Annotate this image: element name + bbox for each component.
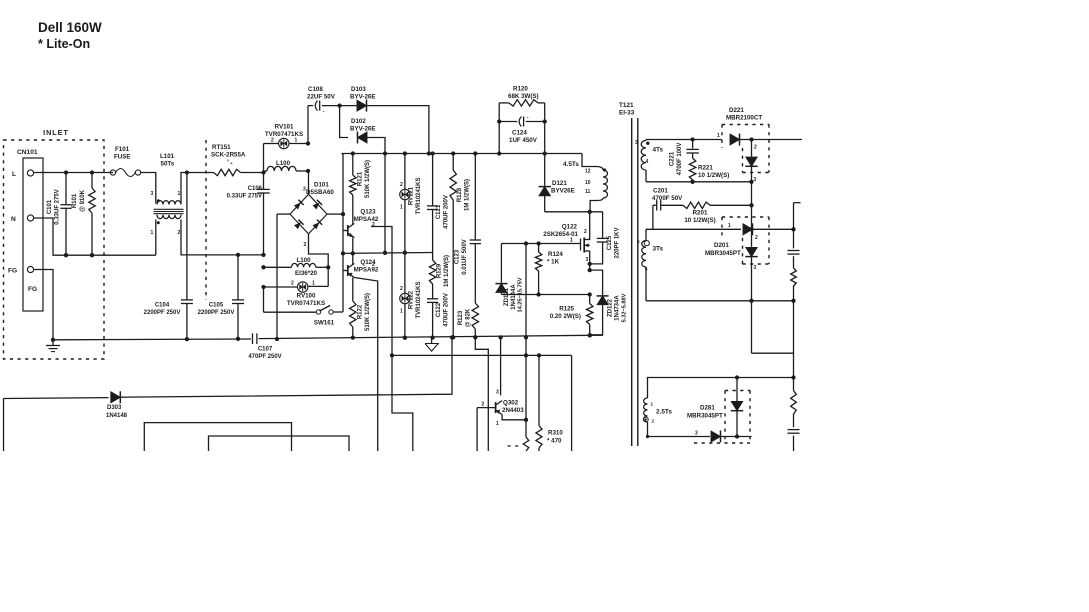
svg-text:TVR07471KS: TVR07471KS	[287, 300, 325, 307]
diode D281 lower	[711, 431, 721, 442]
svg-text:4.5Ts: 4.5Ts	[563, 161, 579, 168]
diode D303	[111, 392, 121, 403]
svg-text:1: 1	[400, 309, 403, 315]
junction R221 bottom	[690, 180, 694, 184]
svg-text:50Ts: 50Ts	[161, 161, 175, 168]
junction C125 return	[588, 262, 592, 266]
svg-text:1UF 450V: 1UF 450V	[509, 137, 538, 144]
wire W251 sub-bus	[343, 252, 433, 255]
svg-text:1M 1/2W(S): 1M 1/2W(S)	[465, 179, 471, 211]
svg-text:EI36*20: EI36*20	[295, 270, 318, 277]
svg-text:BYV-26E: BYV-26E	[350, 126, 375, 133]
junction bus R128 bottom	[451, 335, 455, 339]
wire col 475 jog	[475, 337, 488, 451]
junction bus R125	[588, 333, 592, 337]
svg-text:INLET: INLET	[43, 128, 69, 137]
junction W251 D102col	[383, 251, 387, 255]
svg-text:T121: T121	[619, 102, 634, 109]
svg-text:2: 2	[271, 138, 274, 144]
bridge diode upper-left	[294, 202, 301, 209]
svg-text:R221: R221	[698, 165, 713, 172]
junction R101 top	[90, 170, 94, 174]
svg-text:3: 3	[496, 390, 499, 396]
svg-text:C221: C221	[670, 151, 676, 166]
svg-text:BYV-26E: BYV-26E	[350, 94, 375, 101]
wire D201 out	[753, 228, 794, 230]
connector CN101 body	[23, 158, 43, 311]
svg-text:D201: D201	[714, 242, 729, 249]
capacitor C101	[65, 173, 67, 205]
svg-text:2: 2	[584, 229, 587, 235]
svg-text:D102: D102	[351, 118, 366, 125]
junction output 377	[791, 375, 795, 379]
junction bus RV121	[403, 151, 407, 155]
capacitor C106	[263, 173, 265, 190]
winding 3Ts	[645, 229, 647, 240]
wire Q122 gate	[501, 243, 580, 245]
svg-text:C108: C108	[308, 86, 323, 93]
ground chassis	[51, 338, 55, 342]
svg-text:L100: L100	[296, 257, 311, 264]
wire D201 in	[646, 228, 741, 230]
svg-text:TVR10241KS: TVR10241KS	[416, 177, 422, 214]
capacitor C122	[427, 298, 438, 300]
varistor RV100	[264, 286, 298, 288]
inductor L100 top	[264, 170, 268, 172]
svg-text:2: 2	[400, 286, 403, 292]
svg-text:2: 2	[372, 262, 375, 268]
svg-text:3Ts: 3Ts	[653, 246, 664, 253]
svg-text:R122: R122	[358, 304, 364, 319]
svg-text:L: L	[12, 171, 16, 178]
wire output column low	[793, 414, 795, 427]
svg-text:FG: FG	[28, 286, 37, 293]
svg-text:* 470: * 470	[547, 438, 562, 445]
junction bridge right	[341, 212, 345, 216]
dashed box D281	[725, 390, 750, 392]
junction bus R121	[351, 151, 355, 155]
junction D102 branch	[337, 103, 341, 107]
svg-text:1: 1	[651, 402, 654, 407]
junction bus R128	[451, 151, 455, 155]
bridge diode lower-left	[294, 222, 301, 229]
capacitor C201	[653, 204, 656, 206]
capacitor C108	[315, 101, 317, 111]
wire EI36 right	[316, 266, 329, 268]
wire W355	[392, 354, 572, 356]
svg-text:Q123: Q123	[360, 209, 376, 216]
svg-text:R129: R129	[437, 263, 443, 278]
svg-text:L100: L100	[276, 160, 291, 167]
wire output column top	[793, 203, 795, 249]
resistor R123	[472, 303, 478, 329]
junction D201 col	[749, 227, 753, 231]
resistor R129	[432, 253, 434, 261]
mosfet Q122 2SK2654-01	[580, 239, 582, 251]
svg-text:1N4148: 1N4148	[106, 413, 128, 419]
wire L line	[34, 172, 113, 174]
terminal N	[27, 215, 33, 221]
junction drain node	[588, 210, 592, 214]
junction bus D102col	[383, 151, 387, 155]
svg-text:ZD122: ZD122	[608, 298, 614, 317]
svg-text:EI-33: EI-33	[619, 110, 635, 117]
svg-text:C125: C125	[607, 235, 613, 250]
svg-text:D121: D121	[552, 180, 567, 187]
junction RV101 right	[306, 141, 310, 145]
svg-text:4: 4	[646, 159, 649, 165]
wire Q123 base	[343, 230, 348, 232]
junction bus C122	[430, 335, 434, 339]
svg-text:D5SBA60: D5SBA60	[306, 189, 334, 196]
junction C106 bottom node	[261, 253, 265, 257]
varistor RV101	[263, 144, 265, 173]
svg-text:3: 3	[586, 257, 589, 263]
wire W355 drop	[571, 355, 573, 451]
svg-text:@ 82K: @ 82K	[466, 308, 472, 327]
svg-text:C121: C121	[436, 204, 442, 219]
capacitor C107 series	[252, 333, 254, 344]
svg-text:2N4403: 2N4403	[502, 407, 524, 414]
capacitor output2	[788, 429, 800, 431]
varistor RV121	[404, 154, 406, 190]
junction bus 590	[588, 333, 592, 337]
svg-text:C123: C123	[455, 249, 461, 264]
wire Q122 source	[589, 251, 591, 270]
resistor R101	[91, 173, 93, 189]
resistor R121	[352, 154, 354, 176]
wire bridge left column	[276, 214, 278, 339]
dashed stub bottom	[508, 445, 519, 447]
svg-text:RV121: RV121	[409, 186, 415, 205]
svg-text:R125: R125	[559, 306, 574, 313]
junction C101 top	[64, 170, 68, 174]
svg-text:1: 1	[151, 230, 154, 236]
wire FG line	[34, 270, 53, 340]
diode D103	[357, 100, 367, 111]
choke L101 core	[154, 208, 184, 210]
svg-text:470PF 250V: 470PF 250V	[248, 354, 281, 360]
wire D103 out	[367, 106, 429, 154]
wire main bus	[342, 153, 583, 155]
choke L101 phase dots	[157, 199, 160, 202]
svg-text:10 1/2W(S): 10 1/2W(S)	[684, 217, 715, 224]
svg-text:1: 1	[570, 238, 573, 244]
svg-text:3: 3	[635, 140, 638, 146]
capacitor C125	[602, 212, 604, 238]
wire EI36 in	[264, 266, 292, 268]
terminal FG	[27, 266, 33, 272]
svg-text:4700F 50V: 4700F 50V	[652, 195, 683, 202]
junction Q string	[351, 251, 355, 255]
wire to SW161	[263, 287, 265, 312]
svg-text:1N4734A: 1N4734A	[615, 295, 621, 321]
resistor col527 stub	[523, 437, 529, 451]
phase circle 2.5Ts	[643, 417, 648, 422]
svg-text:1: 1	[312, 281, 315, 287]
phase dot primary	[603, 168, 606, 171]
svg-text:D101: D101	[314, 182, 329, 189]
wire L101 top right	[181, 173, 187, 204]
wire 4Ts return	[646, 181, 752, 183]
junction C124 left	[497, 119, 501, 123]
junction bus Q302col	[498, 335, 502, 339]
wire L101 bottom left	[155, 220, 157, 256]
bridge diode lower-right	[313, 222, 320, 229]
junction R201 out	[749, 203, 753, 207]
svg-text:2SK2654-01: 2SK2654-01	[543, 231, 578, 238]
wire R120 left col	[498, 103, 500, 154]
rect loop 2	[209, 436, 350, 451]
phase circle 3Ts	[644, 241, 649, 246]
svg-text:FUSE: FUSE	[114, 154, 131, 161]
resistor output2	[791, 391, 797, 415]
diode D221 lower	[751, 140, 753, 157]
svg-text:220PF 1KV: 220PF 1KV	[615, 227, 621, 258]
wire ZD121 out	[501, 294, 589, 296]
junction C124 right	[543, 119, 547, 123]
junction bus C105	[236, 337, 240, 341]
bridge D101 diamond	[290, 194, 327, 234]
svg-text:2: 2	[178, 230, 181, 236]
capacitor C123	[474, 154, 476, 240]
junction R124 top	[536, 241, 540, 245]
svg-text:° ⌞: ° ⌞	[227, 160, 233, 166]
junction W251 RV121	[403, 251, 407, 255]
wire D102 branch	[340, 106, 348, 138]
svg-text:C201: C201	[653, 188, 668, 195]
wire L101 bottom right	[181, 220, 264, 255]
junction C105 top	[236, 253, 240, 257]
svg-text:R123: R123	[458, 310, 464, 325]
svg-text:6: 6	[645, 267, 648, 272]
junction R101 bottom	[90, 253, 94, 257]
wire bus jog to winding	[582, 154, 596, 167]
junction L100 right	[306, 169, 310, 173]
svg-text:L101: L101	[160, 153, 175, 160]
svg-text:1: 1	[400, 205, 403, 211]
wire Q302 base col	[476, 408, 478, 451]
resistor R122	[352, 278, 354, 302]
capacitor C221	[692, 140, 694, 149]
svg-text:0.33UF 275V: 0.33UF 275V	[55, 189, 61, 224]
svg-text:3: 3	[151, 191, 154, 197]
svg-text:3: 3	[695, 431, 698, 437]
svg-text:C107: C107	[258, 347, 273, 353]
transformer T121 primary winding	[596, 167, 603, 171]
transformer T121 core	[631, 118, 633, 446]
svg-text:0.20 2W(S): 0.20 2W(S)	[550, 313, 581, 320]
wire SW161 out	[333, 311, 343, 313]
resistor R201	[683, 202, 710, 208]
junction bus C123	[473, 151, 477, 155]
wire 2.5Ts bottom	[648, 422, 711, 437]
INLET section dashed box	[4, 140, 105, 359]
junction source node	[588, 268, 592, 272]
svg-text:1M 1/2W(S): 1M 1/2W(S)	[444, 255, 450, 287]
svg-text:MBR2100CT: MBR2100CT	[726, 115, 762, 122]
junction C101 bottom	[64, 253, 68, 257]
svg-text:R201: R201	[693, 210, 708, 217]
svg-text:1: 1	[178, 191, 181, 197]
wire output column end	[793, 436, 795, 452]
wire fuse to L101	[141, 173, 156, 204]
transistor Q302 2N4403	[495, 402, 497, 413]
wire winding bottom	[590, 201, 597, 212]
junction 2.5Ts bottom	[646, 435, 649, 438]
bridge diode upper-right	[313, 202, 320, 209]
capacitor C105	[237, 255, 239, 300]
svg-text:22UF 50V: 22UF 50V	[307, 94, 336, 101]
label INLET	[40, 124, 72, 136]
svg-text:RV101: RV101	[275, 124, 294, 131]
wire C201 drop	[652, 205, 654, 229]
resistor R128	[452, 154, 454, 171]
svg-text:D221: D221	[729, 107, 744, 114]
svg-text:C104: C104	[155, 303, 170, 309]
wire D121 out	[545, 211, 603, 213]
wire col 527	[525, 244, 527, 438]
capacitor C124	[499, 121, 517, 123]
svg-text:N: N	[11, 216, 16, 223]
svg-text:2.5Ts: 2.5Ts	[656, 409, 672, 416]
wire N line	[34, 218, 156, 255]
svg-text:C105: C105	[209, 303, 224, 309]
capacitor C121	[432, 154, 434, 206]
svg-text:RV122: RV122	[409, 290, 415, 309]
svg-text:MPSA42: MPSA42	[354, 216, 379, 223]
svg-text:SCK-2R55A: SCK-2R55A	[211, 152, 246, 159]
svg-text:R120: R120	[513, 86, 528, 93]
svg-text:R310: R310	[548, 430, 563, 437]
wire 3Ts return	[646, 300, 794, 302]
wire RV100 branch	[327, 267, 329, 286]
switch SW161	[316, 310, 320, 314]
svg-text:RV100: RV100	[297, 293, 316, 300]
diode D121	[544, 154, 546, 186]
junction RT151 out	[261, 170, 265, 174]
svg-text:1: 1	[496, 421, 499, 427]
svg-text:510K 1/2W(S): 510K 1/2W(S)	[365, 293, 371, 331]
svg-text:1: 1	[717, 133, 720, 139]
thermistor RT151	[214, 169, 241, 175]
svg-text:CN101: CN101	[17, 149, 38, 156]
terminal L	[27, 170, 33, 176]
resistor R310	[538, 355, 540, 425]
svg-text:2200PF 250V: 2200PF 250V	[144, 310, 181, 316]
wire D303 out	[120, 337, 452, 397]
svg-text:SW161: SW161	[314, 320, 335, 327]
junction source col 294	[588, 292, 592, 296]
svg-text:Dell 160W: Dell 160W	[38, 20, 102, 35]
svg-text:4700F 100V: 4700F 100V	[677, 143, 683, 176]
junction W355 527	[524, 353, 528, 357]
wire Q302 emitter	[502, 415, 526, 420]
svg-text:2: 2	[291, 281, 294, 287]
wire Q302 collector col	[500, 337, 502, 395]
junction bus R120R	[543, 151, 547, 155]
svg-text:R124: R124	[548, 251, 563, 258]
svg-text:10: 10	[585, 180, 591, 186]
choke L101 bottom winding	[157, 215, 181, 219]
wire D102 out	[367, 138, 385, 154]
svg-text:ZD121: ZD121	[504, 287, 510, 306]
svg-text:BYV26E: BYV26E	[551, 188, 575, 195]
junction bus R122	[351, 335, 355, 339]
svg-text:2: 2	[652, 419, 655, 424]
choke L101 top winding	[157, 201, 181, 205]
wire D221 out	[740, 139, 803, 141]
junction emitter col	[524, 418, 528, 422]
svg-text:68K 3W(S): 68K 3W(S)	[508, 93, 539, 100]
svg-text:R101: R101	[72, 193, 78, 208]
svg-text:10 1/2W(S): 10 1/2W(S)	[698, 172, 729, 179]
junction bus D103col	[427, 151, 431, 155]
wire bridge right	[327, 213, 343, 215]
svg-text:5: 5	[637, 239, 640, 244]
diode D281 top	[736, 378, 738, 402]
junction 4Ts return col	[749, 180, 753, 184]
wire Q123emitter drop	[371, 227, 413, 452]
svg-text:2200PF 250V: 2200PF 250V	[198, 310, 235, 316]
svg-text:RT151: RT151	[212, 144, 231, 151]
junction bus C121	[430, 151, 434, 155]
junction RV100 left	[261, 285, 265, 289]
svg-text:12: 12	[585, 169, 591, 175]
svg-text:Q302: Q302	[503, 400, 519, 407]
junction 3Ts return D201col	[749, 299, 753, 303]
junction output 229	[791, 227, 795, 231]
svg-text:470UF 200V: 470UF 200V	[444, 195, 450, 229]
winding 4Ts	[645, 140, 647, 141]
svg-text:TVR10241KS: TVR10241KS	[416, 281, 422, 318]
resistor R221	[689, 158, 695, 180]
svg-text:1: 1	[295, 138, 298, 144]
junction 3Ts return right	[791, 299, 795, 303]
wire D303 line	[4, 397, 109, 400]
svg-text:4Ts: 4Ts	[653, 147, 664, 154]
wire 2.5Ts top	[648, 378, 794, 399]
svg-text:* Lite-On: * Lite-On	[38, 37, 90, 51]
dashed box D201	[722, 216, 769, 218]
svg-text:R121: R121	[358, 171, 364, 186]
diode D201 top	[743, 224, 753, 235]
svg-text:C124: C124	[512, 130, 527, 137]
svg-text:C122: C122	[436, 302, 442, 317]
capacitor C104	[186, 173, 188, 300]
svg-text:R128: R128	[457, 187, 463, 202]
junction base col W251	[341, 251, 345, 255]
junction D221 col	[749, 137, 753, 141]
junction bus D303col	[450, 335, 454, 339]
svg-text:2: 2	[304, 242, 307, 248]
wire D102 column lower	[384, 154, 386, 253]
svg-text:1: 1	[728, 223, 731, 229]
wire to RT151	[187, 172, 214, 174]
varistor RV122	[404, 253, 406, 294]
junction bus bridge-left	[275, 337, 279, 341]
capacitor output1	[788, 250, 800, 252]
svg-text:2: 2	[754, 145, 757, 151]
resistor R125	[589, 295, 591, 304]
svg-text:C106: C106	[248, 186, 263, 192]
svg-text:FG: FG	[8, 268, 17, 275]
junction EI36 in	[261, 265, 265, 269]
zener ZD122	[590, 270, 603, 295]
resistor R120	[499, 102, 509, 104]
wire Q124 base	[343, 270, 348, 272]
svg-text:D281: D281	[700, 405, 715, 412]
